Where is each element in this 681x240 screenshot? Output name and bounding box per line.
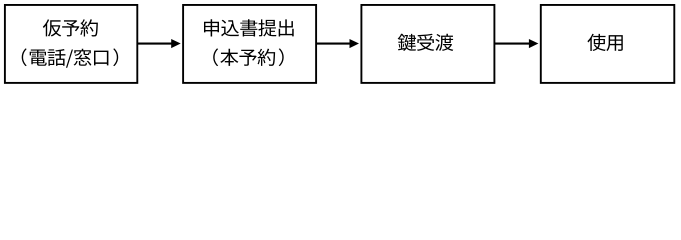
text box1 line1: 仮予約	[43, 19, 98, 36]
arrow 1	[137, 39, 180, 48]
text box2 line2: （本予約）	[213, 48, 284, 66]
text box1 line2: （電話/窓口）	[22, 48, 118, 67]
text box3: 鍵受渡	[398, 34, 454, 51]
flow box 3 (key handover)	[361, 5, 494, 83]
text box2 line1: 申込書提出	[204, 19, 294, 36]
flow box 1 (provisional reservation)	[5, 5, 137, 83]
arrow 3	[494, 39, 538, 48]
arrow 2	[316, 39, 359, 48]
flow box 4 (use)	[541, 5, 675, 83]
flow box 2 (application form submission)	[183, 5, 316, 83]
text box4: 使用	[587, 34, 622, 51]
